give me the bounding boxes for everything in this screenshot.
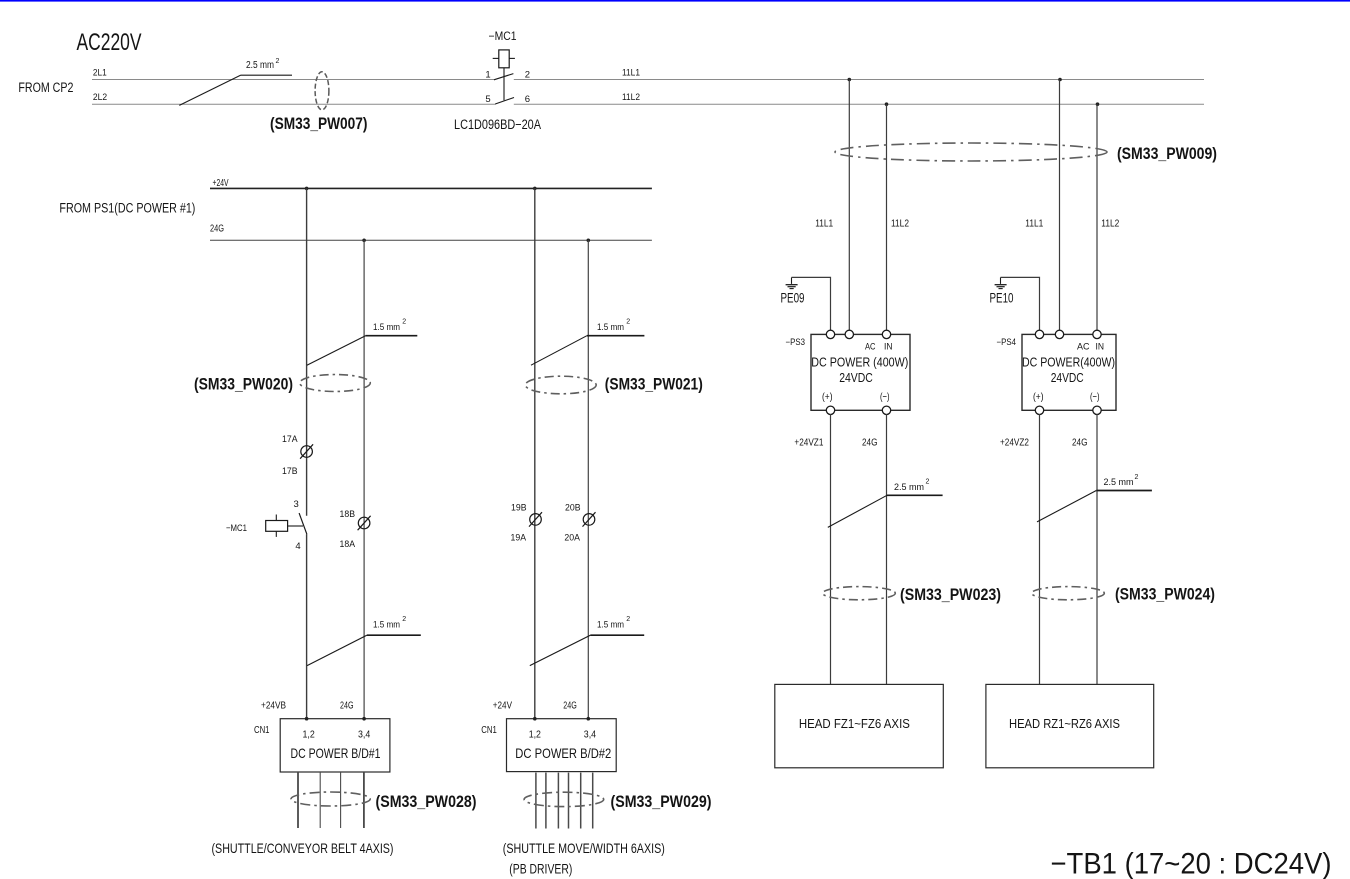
svg-text:LC1D096BD−20A: LC1D096BD−20A — [454, 117, 541, 132]
terminal PS3 plus — [826, 406, 834, 414]
wire +24V bus — [210, 187, 652, 189]
contactor coil MC1 aux — [266, 515, 303, 537]
svg-text:(SHUTTLE MOVE/WIDTH 6AXIS): (SHUTTLE MOVE/WIDTH 6AXIS) — [503, 840, 665, 856]
junction dot +24V/C — [533, 187, 537, 191]
svg-text:(+): (+) — [1033, 391, 1044, 403]
svg-text:6: 6 — [525, 94, 530, 105]
svg-text:(SM33_PW024): (SM33_PW024) — [1115, 586, 1215, 604]
wire PS4 minus to head2 — [1096, 414, 1098, 684]
svg-text:(SM33_PW020): (SM33_PW020) — [194, 376, 293, 394]
wire 24G bus — [210, 239, 652, 241]
wire size marker 1.5mm2 right bottom — [530, 635, 591, 665]
svg-text:(SM33_PW023): (SM33_PW023) — [900, 586, 1001, 604]
svg-text:24VDC: 24VDC — [839, 371, 873, 385]
svg-text:AC220V: AC220V — [77, 29, 142, 56]
svg-text:19A: 19A — [511, 532, 527, 543]
contact MC1 5-6 — [495, 98, 514, 105]
cable marker ellipse SM33_PW021 — [525, 376, 596, 394]
value label 1.5 mm2 left bottom — [373, 616, 406, 630]
svg-text:DC POWER(400W): DC POWER(400W) — [1022, 355, 1115, 369]
wire PS4 plus to head2 — [1039, 414, 1041, 684]
junction dot 11L1/v3 — [1058, 78, 1062, 82]
svg-text:HEAD FZ1~FZ6 AXIS: HEAD FZ1~FZ6 AXIS — [799, 716, 910, 731]
terminal PS4 AC — [1055, 330, 1063, 338]
value label 1.5 mm2 right bottom — [597, 616, 630, 630]
terminal PS4 minus — [1093, 406, 1101, 414]
svg-text:+24VZ1: +24VZ1 — [794, 436, 823, 448]
svg-text:(SM33_PW007): (SM33_PW007) — [270, 115, 368, 133]
svg-text:3: 3 — [294, 499, 299, 510]
wire size marker 2.5mm2 PS4 — [1037, 491, 1096, 522]
svg-text:2: 2 — [276, 58, 280, 65]
svg-text:3,4: 3,4 — [358, 728, 370, 740]
wire PS3 minus to head1 — [886, 414, 888, 684]
svg-text:DC POWER B/D#1: DC POWER B/D#1 — [291, 745, 381, 761]
junction dot 24G/D — [587, 239, 591, 243]
cable marker ellipse SM33_PW024 — [1032, 587, 1105, 600]
svg-text:5: 5 — [485, 94, 490, 105]
svg-text:−TB1 (17~20 : DC24V): −TB1 (17~20 : DC24V) — [1051, 848, 1332, 879]
wire size marker 1.5mm2 right top — [531, 336, 587, 366]
wire box1 out4 — [363, 773, 365, 828]
wire 11L1 — [514, 79, 1204, 81]
svg-text:(SM33_PW009): (SM33_PW009) — [1117, 145, 1217, 163]
power supply PS4 box — [1022, 334, 1116, 410]
svg-text:(−): (−) — [880, 391, 890, 403]
svg-text:1,2: 1,2 — [529, 728, 541, 740]
wire box1 out2 — [319, 773, 321, 828]
svg-text:2: 2 — [402, 616, 406, 623]
svg-text:2.5 mm: 2.5 mm — [894, 482, 924, 493]
wire 2L1 — [92, 79, 494, 81]
value label 2.5 mm2 PS4 — [1104, 474, 1139, 488]
contact MC1 1-2 — [494, 74, 514, 80]
wire 11L2 — [514, 103, 1204, 105]
svg-text:1: 1 — [485, 70, 490, 81]
wire v3 11L1 drop to PS4 — [1059, 80, 1061, 331]
svg-text:IN: IN — [1096, 341, 1105, 351]
svg-text:3,4: 3,4 — [584, 728, 596, 740]
svg-text:2: 2 — [626, 616, 630, 623]
module DC POWER B/D#2 — [507, 719, 617, 772]
svg-text:11L2: 11L2 — [622, 92, 640, 103]
value label 1.5 mm2 right top — [597, 319, 630, 333]
svg-text:19B: 19B — [511, 503, 527, 514]
wire 2L2 — [92, 103, 496, 105]
cable marker ellipse SM33_PW020 — [300, 375, 371, 392]
wire box1 out1 — [297, 773, 299, 828]
svg-text:(SM33_PW028): (SM33_PW028) — [376, 793, 477, 811]
svg-text:(SHUTTLE/CONVEYOR BELT 4AXIS): (SHUTTLE/CONVEYOR BELT 4AXIS) — [212, 840, 394, 856]
svg-text:24VDC: 24VDC — [1051, 371, 1084, 385]
svg-text:−PS3: −PS3 — [786, 337, 806, 347]
svg-text:24G: 24G — [1072, 436, 1088, 448]
junction dot 24G/B — [362, 239, 366, 243]
power supply PS3 box — [811, 334, 910, 410]
fuse terminal 20 on wire D — [583, 512, 596, 526]
terminal PS3 IN — [882, 330, 890, 338]
svg-text:(PB DRIVER): (PB DRIVER) — [509, 861, 572, 877]
junction dot 11L2/v4 — [1096, 102, 1100, 106]
svg-text:1.5 mm: 1.5 mm — [597, 620, 624, 630]
wire size marker 1.5mm2 left bottom — [307, 635, 367, 665]
wire box2 out2 — [545, 773, 547, 829]
module HEAD FZ box — [775, 684, 944, 767]
svg-text:(SM33_PW021): (SM33_PW021) — [605, 376, 703, 394]
svg-text:24G: 24G — [210, 224, 224, 235]
svg-text:2: 2 — [525, 70, 530, 81]
svg-text:1.5 mm: 1.5 mm — [373, 322, 400, 332]
svg-text:DC POWER B/D#2: DC POWER B/D#2 — [515, 745, 611, 761]
module DC POWER B/D#1 — [280, 719, 390, 772]
svg-text:FROM PS1(DC POWER #1): FROM PS1(DC POWER #1) — [59, 200, 195, 215]
svg-text:AC: AC — [1077, 341, 1090, 351]
svg-text:11L2: 11L2 — [1101, 217, 1119, 229]
contactor coil MC1 — [493, 50, 515, 100]
svg-text:1.5 mm: 1.5 mm — [373, 620, 400, 630]
junction dot 11L1/v1 — [848, 78, 852, 82]
fuse terminal 19 on wire C — [529, 512, 542, 526]
svg-text:1,2: 1,2 — [303, 728, 315, 740]
wire PE10 to PS4 — [1001, 277, 1040, 330]
svg-text:+24VZ2: +24VZ2 — [1000, 436, 1029, 448]
svg-text:18A: 18A — [340, 539, 356, 550]
wire size marker 1.5mm2 left top — [307, 336, 366, 366]
svg-text:2.5 mm: 2.5 mm — [246, 60, 274, 71]
wire PS3 plus to head1 — [830, 414, 832, 684]
value label 2.5 mm2 top — [246, 58, 280, 71]
svg-text:17A: 17A — [282, 434, 298, 445]
fuse terminal 17 on wire A — [300, 444, 313, 458]
label AC IN PS4 — [1077, 341, 1104, 351]
svg-text:20A: 20A — [564, 532, 580, 543]
svg-text:11L1: 11L1 — [815, 217, 833, 229]
cable marker ellipse SM33_PW028 — [291, 792, 370, 806]
wire v2 11L2 drop to PS3 — [886, 104, 888, 331]
module HEAD RZ box — [986, 684, 1154, 767]
terminal PS3 AC — [845, 330, 853, 338]
value label 1.5 mm2 left top — [373, 319, 406, 333]
terminal PS4 plus — [1035, 406, 1043, 414]
label AC IN PS3 — [865, 341, 893, 351]
top blue border — [0, 0, 1350, 2]
wire A lower — [306, 534, 308, 719]
junction dot box1 pin34 — [362, 717, 366, 721]
svg-text:FROM CP2: FROM CP2 — [18, 80, 73, 95]
svg-text:AC: AC — [865, 341, 876, 351]
wire box2 out5 — [580, 773, 582, 829]
svg-text:11L1: 11L1 — [622, 67, 640, 78]
svg-text:PE09: PE09 — [781, 290, 805, 305]
svg-text:CN1: CN1 — [254, 725, 270, 736]
svg-text:2.5 mm: 2.5 mm — [1104, 477, 1134, 488]
svg-text:+24VB: +24VB — [261, 700, 286, 712]
wire C — [534, 188, 536, 718]
wire D — [587, 240, 589, 718]
junction dot box2 pin12 — [533, 717, 537, 721]
terminal PS3 PE — [826, 330, 834, 338]
svg-text:−MC1: −MC1 — [226, 523, 247, 534]
svg-text:(SM33_PW029): (SM33_PW029) — [611, 793, 712, 811]
contact MC1 3-4 — [299, 513, 307, 534]
cable marker ellipse SM33_PW009 — [835, 143, 1107, 161]
svg-text:(+): (+) — [822, 391, 833, 403]
svg-text:24G: 24G — [862, 436, 878, 448]
svg-text:(−): (−) — [1090, 391, 1100, 403]
svg-text:1.5 mm: 1.5 mm — [597, 322, 624, 332]
wire box2 out6 — [592, 773, 594, 829]
wire box2 out3 — [557, 773, 559, 829]
wire box1 out3 — [340, 773, 342, 828]
cable marker ellipse SM33_PW029 — [524, 792, 604, 806]
svg-text:2L1: 2L1 — [93, 67, 107, 78]
junction dot +24V/A — [305, 187, 309, 191]
wire PE09 to PS3 — [792, 277, 831, 330]
wire size marker 2.5mm2 PS3 — [828, 495, 887, 527]
wire v4 11L2 drop to PS4 — [1096, 104, 1098, 331]
svg-text:2: 2 — [1135, 474, 1139, 481]
svg-text:4: 4 — [295, 541, 300, 552]
terminal PS3 minus — [882, 406, 890, 414]
svg-text:2L2: 2L2 — [93, 92, 107, 103]
svg-text:20B: 20B — [565, 503, 581, 514]
cable marker ellipse SM33_PW007 — [315, 72, 329, 110]
wire box2 out1 — [535, 773, 537, 829]
fuse terminal 18 on wire B — [358, 516, 371, 530]
wire A upper — [306, 188, 308, 515]
svg-text:+24V: +24V — [493, 700, 512, 712]
svg-text:24G: 24G — [340, 700, 354, 712]
svg-text:11L1: 11L1 — [1025, 217, 1043, 229]
svg-text:17B: 17B — [282, 466, 298, 477]
terminal PS4 IN — [1093, 330, 1101, 338]
svg-text:2: 2 — [626, 319, 630, 326]
svg-text:DC POWER (400W): DC POWER (400W) — [811, 355, 908, 369]
svg-text:−MC1: −MC1 — [489, 31, 517, 43]
junction dot box2 pin34 — [587, 717, 591, 721]
junction dot box1 pin12 — [305, 717, 309, 721]
svg-text:IN: IN — [884, 341, 893, 351]
svg-text:2: 2 — [402, 319, 406, 326]
wire v1 11L1 drop to PS3 — [848, 80, 850, 331]
cable marker ellipse SM33_PW023 — [823, 587, 896, 600]
junction dot 11L2/v2 — [885, 102, 889, 106]
svg-text:24G: 24G — [563, 700, 577, 712]
svg-text:2: 2 — [926, 479, 930, 486]
wire box2 out4 — [568, 773, 570, 829]
ground PE09 — [786, 277, 798, 288]
svg-text:−PS4: −PS4 — [997, 337, 1017, 347]
value label 2.5 mm2 PS3 — [894, 479, 930, 493]
svg-text:11L2: 11L2 — [891, 217, 909, 229]
svg-text:+24V: +24V — [213, 178, 229, 189]
svg-text:18B: 18B — [340, 509, 356, 520]
wire size marker 2.5mm2 top — [179, 75, 240, 105]
svg-text:PE10: PE10 — [990, 290, 1014, 305]
svg-text:CN1: CN1 — [481, 725, 497, 736]
wire B — [363, 240, 365, 718]
svg-text:HEAD RZ1~RZ6 AXIS: HEAD RZ1~RZ6 AXIS — [1009, 716, 1120, 731]
ground PE10 — [995, 277, 1007, 288]
terminal PS4 PE — [1035, 330, 1043, 338]
